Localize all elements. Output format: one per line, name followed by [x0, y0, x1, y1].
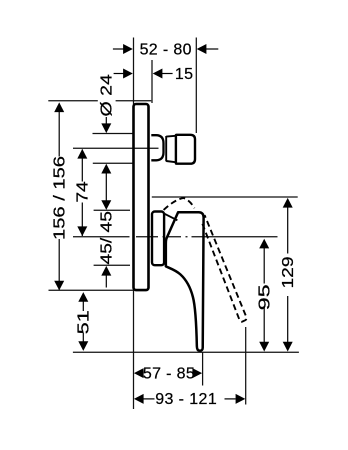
- wire extension line vertical wall x=133.5: [133, 38, 135, 410]
- wire extension line y=197 raised lever top: [152, 196, 298, 198]
- wire extension line x=196.3 knob front: [195, 38, 197, 134]
- lever raised position dashed: [164, 198, 247, 322]
- svg-text:93 - 121: 93 - 121: [155, 391, 217, 408]
- wire extension line y=163.2 knob bottom: [93, 162, 133, 164]
- wire center line knob y=148.3: [73, 147, 159, 149]
- svg-text:57 - 85: 57 - 85: [143, 365, 195, 382]
- wire extension line y=290.3 plate bottom: [49, 289, 134, 291]
- dimension 15: [114, 66, 194, 83]
- svg-text:156 / 156: 156 / 156: [50, 156, 68, 240]
- dimension 93-121: [134, 391, 245, 408]
- lever handle outline: [166, 212, 204, 350]
- dimension 52-80: [113, 41, 218, 58]
- svg-text:45/ 45: 45/ 45: [97, 211, 115, 265]
- wire center line main y=236.8 dash-dot: [73, 236, 278, 238]
- lever neck slant: [165, 214, 178, 221]
- wire extension line y=100.7 plate top: [48, 100, 151, 102]
- dimension 95: [256, 239, 274, 352]
- wire extension line x=202.6 grip front: [202, 352, 204, 386]
- svg-text:95: 95: [256, 284, 274, 310]
- dimension 51: [75, 292, 93, 351]
- dimension 129: [278, 198, 296, 352]
- dimension 45/45: [97, 211, 115, 288]
- diverter knob dome base: [151, 135, 163, 160]
- wire extension line y=133.5 knob top: [93, 133, 133, 135]
- svg-text:Ø 24: Ø 24: [97, 74, 115, 116]
- svg-text:129: 129: [278, 256, 296, 288]
- wire baseline y=352.2: [73, 351, 299, 353]
- wire extension line y=210.3 sleeve top: [94, 209, 130, 211]
- wire extension line x=245.7 dashed grip end: [245, 327, 247, 405]
- diverter knob stem cylinder: [166, 136, 175, 162]
- dimension 156/156: [50, 102, 68, 290]
- wire extension line x=152 plate front: [151, 60, 153, 103]
- cartridge sleeve: [152, 212, 164, 266]
- dimension 57-85: [134, 365, 202, 382]
- svg-text:52 - 80: 52 - 80: [140, 41, 192, 58]
- plate escutcheon: [134, 104, 149, 290]
- dimension Ø24: [97, 74, 115, 210]
- diverter knob: [176, 135, 195, 164]
- dimension 74: [73, 149, 91, 236]
- wire extension line y=265.3 sleeve bottom: [94, 264, 130, 266]
- svg-text:15: 15: [175, 66, 194, 83]
- svg-text:51: 51: [75, 310, 93, 334]
- svg-text:74: 74: [73, 181, 91, 203]
